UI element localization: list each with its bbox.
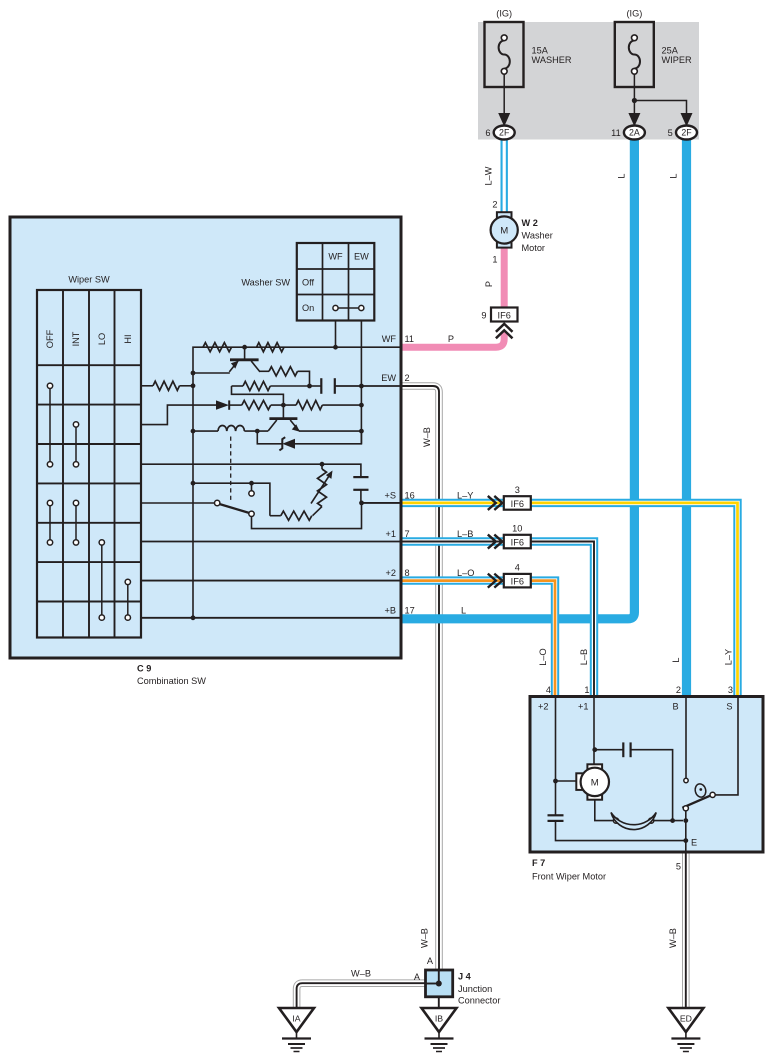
svg-text:ED: ED (680, 1014, 692, 1024)
svg-text:2F: 2F (681, 128, 692, 138)
svg-text:2: 2 (405, 373, 410, 383)
svg-text:Motor: Motor (522, 243, 546, 253)
svg-text:WF: WF (328, 252, 343, 262)
svg-text:P: P (484, 281, 494, 287)
svg-text:P: P (448, 334, 454, 344)
svg-text:+S: +S (385, 490, 397, 500)
svg-text:L–B: L–B (579, 649, 589, 665)
svg-text:IB: IB (435, 1014, 443, 1024)
svg-text:IA: IA (292, 1014, 300, 1024)
svg-text:+2: +2 (538, 702, 548, 712)
svg-text:10: 10 (512, 524, 522, 534)
svg-text:4: 4 (515, 563, 520, 573)
svg-text:2F: 2F (499, 128, 510, 138)
svg-text:F 7: F 7 (532, 858, 545, 868)
svg-text:2: 2 (676, 685, 681, 695)
svg-text:M: M (591, 777, 599, 788)
svg-text:J 4: J 4 (458, 972, 472, 982)
svg-text:Combination SW: Combination SW (137, 676, 206, 686)
svg-text:(IG): (IG) (496, 9, 512, 19)
svg-text:OFF: OFF (45, 329, 55, 348)
svg-text:WIPER: WIPER (662, 55, 692, 65)
svg-text:L: L (669, 173, 679, 178)
svg-text:17: 17 (405, 605, 415, 615)
svg-text:5: 5 (676, 862, 681, 872)
svg-text:Wiper SW: Wiper SW (68, 275, 110, 285)
svg-text:L–B: L–B (457, 529, 473, 539)
svg-text:4: 4 (546, 685, 551, 695)
svg-text:6: 6 (485, 128, 490, 138)
svg-text:LO: LO (97, 333, 107, 345)
svg-text:5: 5 (668, 128, 673, 138)
svg-text:Washer: Washer (522, 231, 553, 241)
svg-text:L–O: L–O (457, 568, 474, 578)
svg-text:W–B: W–B (422, 427, 432, 447)
svg-text:IF6: IF6 (511, 537, 524, 547)
svg-text:+1: +1 (578, 702, 588, 712)
svg-text:3: 3 (728, 685, 733, 695)
svg-text:L–W: L–W (484, 166, 494, 185)
svg-text:Off: Off (302, 278, 315, 288)
svg-text:WF: WF (382, 334, 397, 344)
svg-text:E: E (691, 838, 697, 848)
svg-text:W–B: W–B (351, 969, 371, 979)
svg-text:L: L (671, 657, 681, 662)
svg-text:8: 8 (405, 568, 410, 578)
svg-text:IF6: IF6 (511, 499, 524, 509)
svg-text:EW: EW (381, 373, 396, 383)
svg-text:W–B: W–B (668, 928, 678, 948)
svg-text:L: L (461, 605, 466, 615)
svg-text:WASHER: WASHER (532, 55, 572, 65)
svg-text:HI: HI (123, 334, 133, 343)
svg-text:S: S (726, 702, 732, 712)
svg-text:IF6: IF6 (511, 577, 524, 587)
svg-text:Connector: Connector (458, 996, 500, 1006)
svg-text:3: 3 (515, 485, 520, 495)
svg-text:L–Y: L–Y (724, 649, 734, 665)
svg-text:C 9: C 9 (137, 664, 151, 674)
svg-text:Junction: Junction (458, 984, 492, 994)
svg-text:W 2: W 2 (522, 218, 538, 228)
svg-text:11: 11 (405, 334, 415, 344)
svg-text:11: 11 (611, 128, 621, 138)
svg-text:+B: +B (385, 605, 397, 615)
svg-text:1: 1 (584, 685, 589, 695)
svg-text:1: 1 (492, 255, 497, 265)
svg-text:EW: EW (354, 252, 369, 262)
svg-text:INT: INT (71, 331, 81, 346)
svg-text:+1: +1 (386, 529, 396, 539)
svg-text:2A: 2A (629, 128, 640, 138)
svg-text:A: A (414, 972, 421, 982)
svg-text:L–Y: L–Y (457, 490, 473, 500)
svg-text:M: M (500, 225, 508, 236)
svg-text:7: 7 (405, 529, 410, 539)
svg-text:(IG): (IG) (626, 9, 642, 19)
svg-text:16: 16 (405, 490, 415, 500)
svg-text:Washer SW: Washer SW (241, 278, 290, 288)
svg-text:Front Wiper Motor: Front Wiper Motor (532, 872, 606, 882)
svg-text:L–O: L–O (538, 648, 548, 665)
svg-text:IF6: IF6 (498, 310, 511, 320)
svg-text:A: A (427, 956, 434, 966)
svg-text:W–B: W–B (420, 928, 430, 948)
svg-text:+2: +2 (386, 568, 396, 578)
svg-text:2: 2 (492, 200, 497, 210)
svg-text:9: 9 (481, 310, 486, 320)
svg-text:B: B (673, 702, 679, 712)
svg-text:On: On (302, 303, 314, 313)
svg-text:L: L (617, 173, 627, 178)
